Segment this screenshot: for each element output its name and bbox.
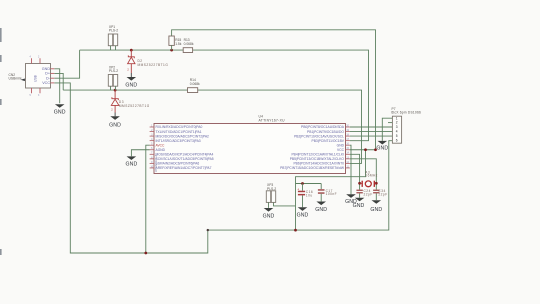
USB connector CN2	[9, 57, 55, 98]
svg-text:MMSZ5227BT1G: MMSZ5227BT1G	[138, 63, 169, 67]
ground: C16 ground	[297, 207, 309, 218]
svg-text:TXLIN/TXD/ADC1/PCINT1|PA1: TXLIN/TXD/ADC1/PCINT1|PA1	[156, 130, 202, 134]
svg-text:PB2|PCINT10/OC1AV/USCK/SCL: PB2|PCINT10/OC1AV/USCK/SCL	[294, 134, 344, 138]
node: AVCC junction on bottom rail	[144, 252, 147, 255]
svg-text:GND: GND	[297, 213, 309, 219]
svg-text:PB4|PCINT12/OC1AW/XTAL1/CLKI: PB4|PCINT12/OC1AW/XTAL1/CLKI	[291, 153, 344, 157]
screen edge artifact marks	[0, 28, 2, 255]
ground: C17 ground	[315, 202, 327, 213]
capacitor C24 22pF	[356, 189, 372, 198]
connector XP2 PLS-2	[108, 65, 118, 90]
svg-text:GND: GND	[42, 67, 51, 71]
svg-text:1.5k: 1.5k	[175, 42, 182, 46]
svg-text:AREF/XREF/AIN1/ADC7/PCINT7|PA7: AREF/XREF/AIN1/ADC7/PCINT7|PA7	[156, 166, 212, 170]
svg-text:22pF: 22pF	[364, 192, 373, 196]
node: decoupling vertical junction on VCC rail	[294, 229, 297, 232]
node: R15 junction on D- net	[170, 49, 173, 52]
node: D2 junction on D- net	[130, 49, 133, 52]
wire: D- net (wire A) left segment through XP1 and D2 to R13	[80, 49, 184, 51]
svg-text:GND: GND	[109, 122, 121, 128]
resistor R13 0.068k (series D-)	[183, 38, 194, 53]
svg-text:1: 1	[396, 116, 398, 120]
connector XP3 PLS-2	[266, 183, 276, 208]
capacitor C16 10u electrolytic	[297, 184, 313, 208]
node: VCC row junction at pull-up branch	[374, 148, 377, 151]
svg-text:4: 4	[396, 130, 398, 134]
resistor R15 1.5k (pull-up)	[169, 36, 182, 50]
wire: VCC row down to decoupling rail	[296, 150, 366, 230]
resistor R14 0.068k (series D+)	[188, 78, 201, 93]
svg-text:PB6|PCINT14/ADC9/OC1AX/INT0: PB6|PCINT14/ADC9/OC1AX/INT0	[293, 162, 344, 166]
wire: capacitor top rail C16/C17	[296, 183, 322, 185]
wire: MCU PB4 to crystal left terminal and C24	[350, 154, 360, 189]
ground: AGND of MCU	[125, 156, 137, 167]
svg-text:AVCC: AVCC	[156, 143, 166, 147]
wire: MCU VCC pin row	[350, 149, 376, 151]
svg-text:10u: 10u	[306, 194, 313, 198]
ground: C34 ground	[370, 200, 382, 213]
svg-text:USBmini: USBmini	[9, 77, 22, 81]
node: VCC rail corner junction	[207, 229, 209, 231]
wire: XP3 pin 2 to VCC vertical	[274, 202, 296, 206]
ground: XP3 pin 1 ground	[263, 208, 275, 219]
connector P7 IDcX 6pin DS1066	[391, 107, 421, 143]
diode D3 MMSZ5227BT1G (zener on D+)	[109, 90, 150, 128]
svg-text:PLS-2: PLS-2	[267, 187, 276, 191]
svg-text:MOSI/SDA/DI/ICP1/ADC4/PCINT4|P: MOSI/SDA/DI/ICP1/ADC4/PCINT4|PA4	[156, 153, 214, 157]
svg-text:PLS-2: PLS-2	[109, 29, 118, 33]
svg-text:16MHz: 16MHz	[365, 174, 378, 178]
left pin names	[156, 125, 214, 170]
diode D2 MMSZ5227BT1G (zener on D-)	[125, 50, 168, 88]
svg-text:ATTINY167-A: ATTINY167-A	[154, 155, 158, 172]
svg-text:AGND: AGND	[156, 148, 166, 152]
wire: AGND to ground symbol	[131, 150, 149, 157]
wire: D- net (wire A) right segment from R13 to MCU PB3	[193, 50, 369, 141]
svg-text:SS#/AIN2/ADC6/PCINT6|PA6: SS#/AIN2/ADC6/PCINT6|PA6	[156, 162, 200, 166]
node: crystal right junction	[375, 182, 378, 185]
wire: MCU GND pin down to ground	[350, 145, 351, 194]
svg-text:SCK/SCL/USCK/T1/ADC5/PCINT5|PA: SCK/SCL/USCK/T1/ADC5/PCINT5|PA5	[156, 157, 214, 161]
crystal A3 16MHz	[360, 170, 378, 187]
svg-text:2: 2	[396, 121, 398, 125]
pin numbers right side	[346, 125, 349, 168]
left pin stubs	[150, 127, 154, 168]
svg-text:0.068k: 0.068k	[184, 42, 194, 46]
svg-text:INT1/ISRC/ADC3/PCINT3|PA3: INT1/ISRC/ADC3/PCINT3|PA3	[156, 139, 201, 143]
wire: P7 pin 2 stub	[388, 122, 392, 124]
wire: D+ net (wire B) right segment from R14 to MCU PB6	[198, 90, 362, 163]
wire: MCU PB2 to P7 pin 5	[350, 135, 393, 137]
svg-text:ATTINY167-XU: ATTINY167-XU	[259, 119, 286, 123]
op-amp U4 ATTINY167-XU microcontroller	[150, 115, 350, 174]
svg-text:VCC: VCC	[42, 81, 50, 85]
svg-text:PB1|PCINT9/OC1BU/DO: PB1|PCINT9/OC1BU/DO	[307, 130, 344, 134]
svg-text:MISO/DO/OC0A/ADC2/PCINT2|PA2: MISO/DO/OC0A/ADC2/PCINT2|PA2	[156, 134, 210, 138]
svg-text:PB3|PCINT11/OC1BV: PB3|PCINT11/OC1BV	[312, 139, 345, 143]
svg-text:GND: GND	[315, 207, 327, 213]
svg-text:PB0|PCINT8/OC1AU/DI/SDA: PB0|PCINT8/OC1AU/DI/SDA	[301, 125, 345, 129]
wire: USB D- pin up to D- net (wire A)	[54, 50, 79, 78]
svg-text:GND: GND	[337, 143, 345, 147]
svg-text:GND: GND	[376, 146, 388, 152]
wire: USB D+ pin down to D+ net (wire B)	[54, 73, 63, 90]
connector XP1 PLS-2	[108, 25, 118, 50]
wire: MCU PB1 to P7 pin 4	[350, 131, 393, 133]
svg-text:GND: GND	[125, 162, 137, 168]
svg-text:5: 5	[396, 134, 398, 138]
svg-text:0.068k: 0.068k	[190, 82, 200, 86]
right pin names	[280, 125, 345, 170]
svg-text:VCC: VCC	[337, 148, 345, 152]
node: crystal left junction	[358, 182, 361, 185]
svg-text:USB: USB	[34, 74, 38, 82]
node: VCC row junction at decoupling branch	[364, 148, 367, 151]
node: D3 junction on D+ net	[114, 89, 117, 92]
wire: USB GND pin to ground	[54, 69, 59, 103]
right pin stubs	[346, 127, 350, 168]
svg-text:RXLIN/RXD/ADC0/PCINT0|PA0: RXLIN/RXD/ADC0/PCINT0|PA0	[156, 125, 203, 129]
wire: D+ net (wire B) left segment through XP2 and D3 to R14	[63, 89, 187, 91]
node: C16 junction on cap rail	[301, 182, 304, 185]
ground: below USB connector	[54, 104, 66, 115]
svg-text:22pF: 22pF	[378, 192, 387, 196]
wire: AVCC to bottom VCC rail	[146, 145, 150, 253]
svg-text:PB7|PCINT15/ADC10/OC1BX/RESET#: PB7|PCINT15/ADC10/OC1BX/RESET#/dW	[280, 166, 345, 170]
svg-text:100nF: 100nF	[326, 192, 338, 196]
wire: MCU PB0 to P7 pin 3	[350, 126, 393, 128]
svg-text:GND: GND	[263, 213, 275, 219]
svg-text:MMSZ5227BT1G: MMSZ5227BT1G	[119, 104, 150, 108]
capacitor C34 22pF	[373, 189, 388, 200]
svg-text:GND: GND	[353, 203, 365, 209]
svg-text:IDcX 6pin DS1066: IDcX 6pin DS1066	[391, 111, 421, 115]
svg-text:GND: GND	[125, 82, 137, 88]
wire: P7 pin 1 to ground	[382, 118, 392, 141]
capacitor C17 100nF	[318, 184, 337, 202]
svg-text:PB5|PCINT13/OC1BW/XTAL2/CLKO: PB5|PCINT13/OC1BW/XTAL2/CLKO	[290, 157, 345, 161]
svg-text:3: 3	[396, 125, 398, 129]
pin numbers left side	[151, 125, 154, 168]
svg-text:6: 6	[396, 139, 398, 143]
ground: MCU GND pin ground	[345, 194, 357, 205]
svg-text:GND: GND	[370, 207, 382, 213]
svg-text:D+: D+	[45, 72, 50, 76]
ground: C24 ground	[353, 198, 365, 209]
svg-text:GND: GND	[54, 110, 66, 116]
wire: MCU PB5 to crystal right terminal and C34	[350, 159, 376, 190]
ground: P7 pin 1 ground	[376, 141, 388, 152]
wire: VCC top rail from R15 top to MCU VCC row	[172, 30, 376, 150]
wire: VCC net from USB VCC pin down and across bottom to P7 pin 6	[54, 83, 392, 253]
svg-text:PLS-2: PLS-2	[109, 69, 118, 73]
